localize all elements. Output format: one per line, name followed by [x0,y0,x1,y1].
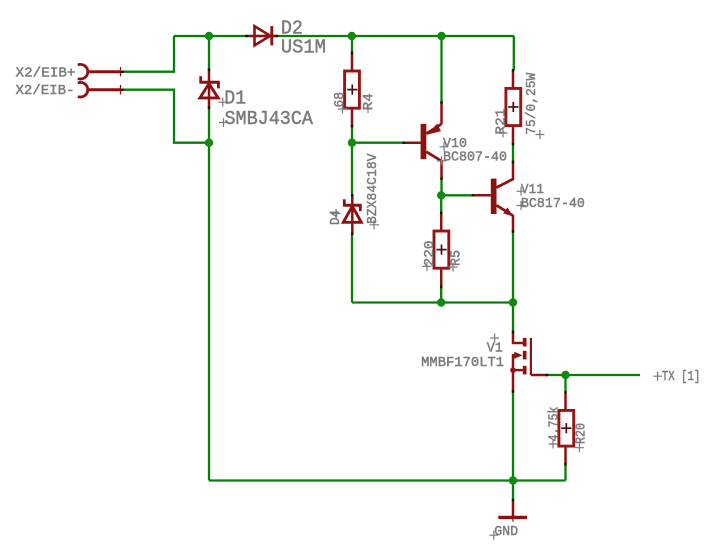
wire GND stub [512,481,514,501]
node junction GND rail [509,476,517,484]
mosfet V1 (MMBF170LT1) [510,332,547,392]
svg-text:V11: V11 [521,183,544,198]
wire R5 bottom segment [440,287,442,303]
svg-text:R4: R4 [362,93,377,110]
label origin crosses [218,98,662,540]
connector pin X2/EIB+ [78,64,125,79]
svg-text:D1: D1 [224,88,246,110]
wire D1 top segment [208,36,210,70]
svg-text:BZX84C18V: BZX84C18V [366,153,381,224]
resistor R20 [559,392,574,464]
svg-text:68: 68 [333,92,348,108]
svg-text:D4: D4 [329,210,344,225]
wire top-right drop to R21 [513,36,515,70]
zener D1 (TVS SMBJ43CA) [199,70,219,107]
svg-text:X2/EIB-: X2/EIB- [16,84,75,99]
node junction top rail at T10 emitter [437,32,445,40]
svg-text:SMBJ43CA: SMBJ43CA [225,108,314,130]
wire V1 gate to TX node [547,374,566,376]
svg-text:V1: V1 [487,341,503,356]
connector pin X2/EIB- [78,82,125,97]
svg-text:X2/EIB+: X2/EIB+ [16,66,76,81]
resistor R21 [506,70,521,144]
node junction middle rail at T11 emitter [509,298,517,306]
wire R5 top segment [440,195,442,213]
node junction top rail at R4 [348,32,356,40]
svg-text:US1M: US1M [281,37,326,59]
svg-text:R20: R20 [575,423,590,444]
wire T11 base net [442,194,474,196]
wire D4 top segment [351,143,353,196]
svg-text:75/0,25W: 75/0,25W [525,72,540,135]
wire left vertical drop [208,143,210,481]
transistor V11 (NPN BC817-40) [473,162,514,232]
svg-text:GND: GND [494,525,518,540]
wire bottom GND rail [209,479,566,481]
svg-text:R21: R21 [494,109,509,135]
wire R4 bottom segment [351,126,353,143]
ground symbol GND [498,500,527,522]
wire T10 collector to node [440,179,442,196]
svg-text:TX [1]: TX [1] [662,370,701,385]
svg-text:R5: R5 [450,250,465,266]
diode D2 [248,26,277,45]
wire TX stub [566,374,641,376]
svg-text:220: 220 [423,241,438,267]
wire R20 bottom segment [564,464,566,480]
wire T10 emitter to top rail [440,36,442,103]
wire X2/EIB- to lower node [122,90,209,143]
wire D4 bottom segment [351,234,353,303]
wire R20 top segment [564,375,566,392]
pin connection end dots [121,35,567,502]
node junction top rail at D1 [205,32,213,40]
wire D1 bottom segment [208,108,210,143]
node junction TX / gate / R20 [561,371,569,379]
wire R21 to T11 collector [512,144,514,162]
node junction T10 collector / R5 / T11 base [437,191,445,199]
node junction R4 / D4 / T10 base [348,139,356,147]
svg-text:BC807-40: BC807-40 [443,151,507,166]
wire T10 base net [352,142,404,144]
svg-text:4.75k: 4.75k [547,407,562,442]
wire X2/EIB+ to top rail [122,36,174,72]
svg-text:BC817-40: BC817-40 [521,197,585,212]
wire R4 top segment [351,36,353,53]
node junction middle rail at R5 [437,298,445,306]
wire middle rail to V1 drain [512,303,514,333]
wire T11 emitter down to middle rail [512,232,514,303]
transistor V10 (PNP BC807-40) [404,103,442,179]
node junction EIB- / D1 bottom [205,139,213,147]
wire top rail [174,35,514,37]
wire V1 source down to GND rail [512,392,514,481]
resistor R4 [345,53,360,126]
wire middle rail [352,301,513,303]
svg-text:MMBF170LT1: MMBF170LT1 [421,356,504,371]
zener D4 (BZX84C18V) [343,196,362,234]
resistor R5 [434,213,449,287]
